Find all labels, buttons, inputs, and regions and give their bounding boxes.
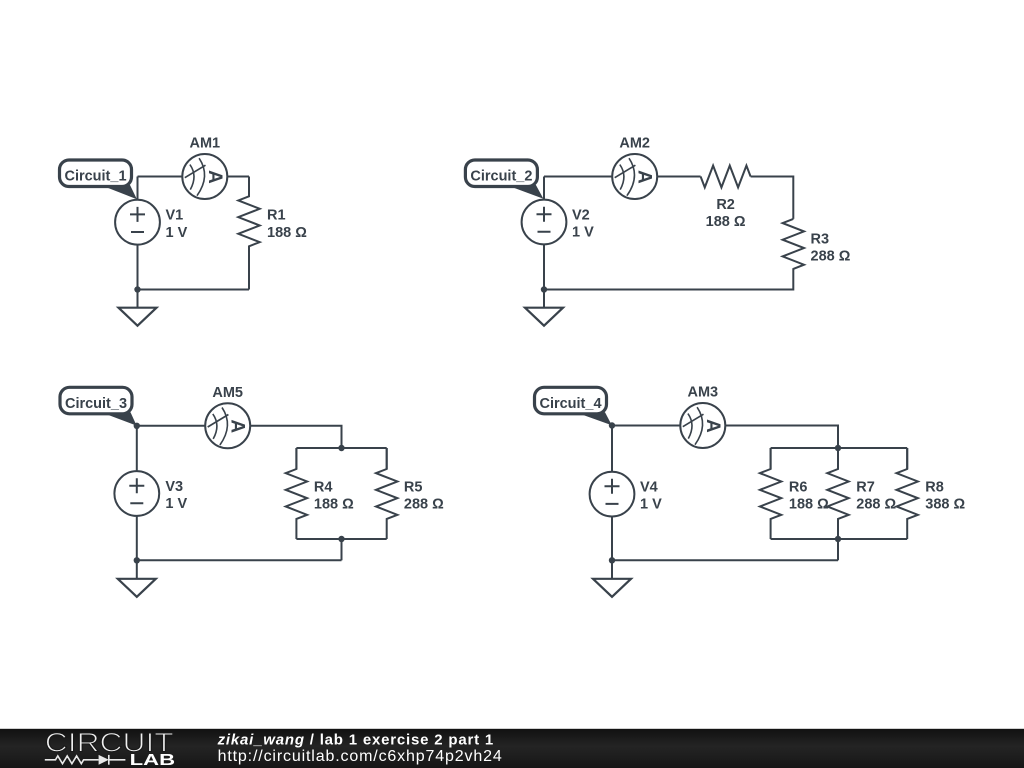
wire C4 R6 branch top: [770, 448, 772, 469]
svg-text:188 Ω: 188 Ω: [789, 497, 829, 513]
svg-text:AM1: AM1: [189, 136, 220, 152]
label V4 value: [640, 480, 662, 513]
svg-text:A: A: [702, 419, 723, 433]
svg-text:V1: V1: [166, 208, 184, 224]
svg-text:V4: V4: [640, 480, 658, 496]
ammeter AM5: [205, 403, 250, 448]
svg-text:R2: R2: [716, 197, 735, 213]
ammeter AM1: [182, 154, 227, 199]
svg-text:288 Ω: 288 Ω: [856, 497, 896, 513]
wire C3 R5 branch top: [386, 448, 388, 469]
wire C1 AM1 to R1: [227, 176, 249, 178]
wire C4 parallel bottom rail: [771, 538, 908, 540]
voltage source V1: [115, 200, 160, 245]
wire C4 V4 bottom stub: [611, 517, 613, 561]
svg-text:A: A: [204, 170, 225, 184]
flag Circuit_4: [535, 387, 612, 425]
label R4 value: [314, 479, 354, 512]
label R8 value: [925, 479, 965, 512]
label V2 value: [572, 207, 594, 240]
svg-text:LAB: LAB: [130, 752, 175, 768]
svg-text:188 Ω: 188 Ω: [267, 225, 307, 241]
resistor R5: [376, 448, 397, 539]
svg-text:Circuit_3: Circuit_3: [65, 396, 127, 412]
resistor R8: [897, 448, 918, 539]
svg-text:AM3: AM3: [687, 385, 718, 401]
wire C4 bottom rail: [612, 559, 838, 561]
svg-text:A: A: [634, 170, 655, 184]
flag Circuit_1: [60, 160, 137, 199]
ammeter AM2: [612, 154, 657, 199]
svg-text:R1: R1: [267, 208, 286, 224]
svg-text:288 Ω: 288 Ω: [404, 497, 444, 513]
svg-text:AM5: AM5: [212, 385, 243, 401]
svg-text:R4: R4: [314, 479, 333, 495]
resistor R3: [783, 219, 804, 269]
voltage source V2: [522, 200, 567, 245]
svg-text:1 V: 1 V: [165, 496, 187, 512]
svg-text:388 Ω: 388 Ω: [925, 497, 965, 513]
svg-text:1 V: 1 V: [640, 497, 662, 513]
junction C3 parallel bottom: [338, 536, 344, 542]
junction C4 parallel top: [835, 445, 841, 451]
label R3 value: [811, 231, 851, 264]
junction C3 parallel top: [338, 445, 344, 451]
junction C4 top node: [609, 422, 615, 428]
svg-text:V3: V3: [165, 479, 183, 495]
ground GND4: [593, 560, 631, 597]
wire C2 AM2 to R2: [657, 176, 700, 178]
wire C3 parallel top rail: [296, 447, 386, 449]
svg-text:R8: R8: [925, 479, 944, 495]
svg-text:zikai_wang / lab 1 exercise 2: zikai_wang / lab 1 exercise 2 part 1: [217, 731, 494, 748]
wire C2 V2 top stub: [543, 177, 545, 200]
junction C1 ground node: [134, 286, 140, 292]
junction C2 ground node: [541, 286, 547, 292]
svg-text:http://circuitlab.com/c6xhp74p: http://circuitlab.com/c6xhp74p2vh24: [218, 748, 503, 765]
svg-text:1 V: 1 V: [572, 225, 594, 241]
wire C4 R8 branch top: [906, 448, 908, 469]
svg-text:V2: V2: [572, 207, 590, 223]
wire C1 bottom rail: [138, 289, 250, 291]
wire C3 bottom rail: [137, 559, 342, 561]
junction C4 parallel bottom: [835, 536, 841, 542]
wire C1 V1 top stub: [137, 177, 139, 200]
wire C4 bottom stub: [837, 539, 839, 560]
label R6 value: [789, 479, 829, 512]
svg-text:Circuit_4: Circuit_4: [539, 396, 601, 412]
svg-text:R7: R7: [856, 479, 875, 495]
wire C4 parallel top rail: [771, 447, 908, 449]
wire C3 V3 top stub: [136, 426, 138, 471]
wire C2 top rail: [544, 176, 612, 178]
wire C2 bottom rail: [544, 269, 793, 290]
wire C4 AM3 to parallel: [725, 426, 838, 449]
ground GND1: [119, 290, 157, 326]
logo diode triangle: [99, 755, 109, 765]
junction C3 ground node: [134, 557, 140, 563]
label R5 value: [404, 479, 444, 512]
resistor R7: [827, 448, 848, 539]
wire C1 top rail: [138, 176, 183, 178]
wire C3 top rail: [137, 425, 205, 427]
resistor R2: [701, 166, 751, 188]
flag Circuit_3: [60, 387, 137, 425]
svg-text:A: A: [227, 419, 248, 433]
logo resistor-diode glyph: [45, 755, 126, 765]
label R2 value: [706, 197, 746, 230]
wire C3 parallel bottom rail: [296, 538, 386, 540]
wire C3 bottom stub: [341, 539, 343, 560]
wire C4 top rail: [612, 425, 681, 427]
wire C3 R4 branch top: [295, 448, 297, 469]
svg-text:R3: R3: [811, 231, 830, 247]
wire C3 V3 bottom stub: [136, 516, 138, 560]
voltage source V4: [590, 472, 635, 517]
resistor R1: [238, 177, 259, 290]
wire C3 AM5 to parallel: [250, 426, 341, 448]
ammeter AM3: [680, 403, 725, 448]
svg-text:188 Ω: 188 Ω: [706, 214, 746, 230]
wire C4 V4 top stub: [611, 426, 613, 472]
svg-text:R5: R5: [404, 479, 423, 495]
junction C4 ground node: [609, 557, 615, 563]
label V1 value: [166, 208, 188, 241]
svg-text:Circuit_1: Circuit_1: [64, 169, 126, 185]
svg-text:AM2: AM2: [619, 136, 650, 152]
label R7 value: [856, 479, 896, 512]
wire C1 V1 bottom stub: [137, 245, 139, 290]
svg-text:Circuit_2: Circuit_2: [470, 169, 532, 185]
label V3 value: [165, 479, 187, 512]
svg-text:188 Ω: 188 Ω: [314, 497, 354, 513]
ground GND2: [525, 290, 563, 326]
svg-text:R6: R6: [789, 479, 808, 495]
resistor R4: [286, 448, 307, 539]
svg-text:288 Ω: 288 Ω: [811, 249, 851, 265]
voltage source V3: [114, 471, 159, 516]
wire C2 R2 to corner: [751, 177, 794, 219]
junction C3 top node: [134, 423, 140, 429]
svg-text:1 V: 1 V: [166, 225, 188, 241]
resistor R6: [760, 448, 781, 539]
ground GND3: [118, 560, 156, 597]
wire C2 V2 bottom stub: [543, 244, 545, 289]
flag Circuit_2: [465, 160, 543, 199]
label R1 value: [267, 208, 307, 241]
